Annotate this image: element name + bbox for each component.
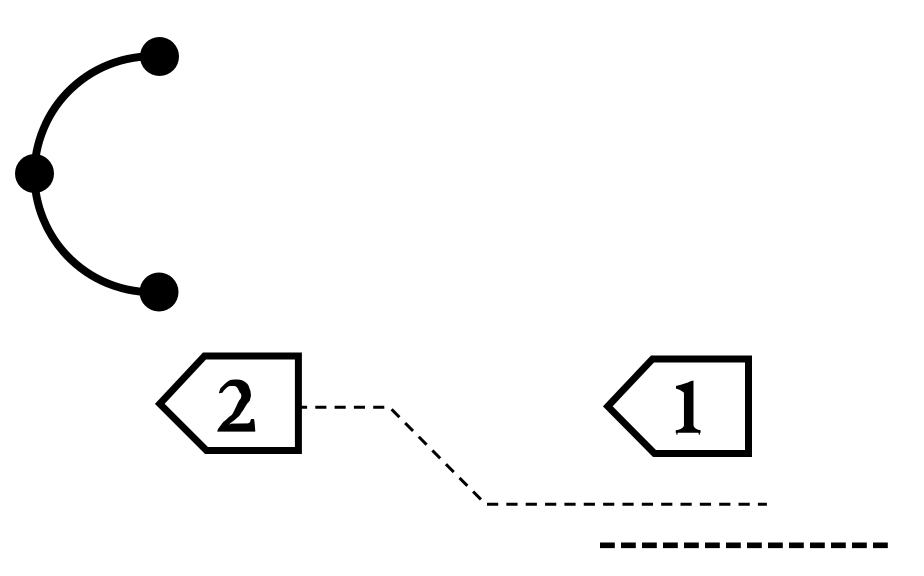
- flag 1 pentagon outline: [608, 359, 749, 454]
- wire dashed horizontal lower segment: [487, 503, 767, 506]
- arc through three nodes: [34, 56, 159, 292]
- thick dashed segment bottom right: [600, 542, 888, 548]
- node dot bottom: [140, 273, 179, 312]
- node dot top: [140, 37, 179, 76]
- flag 2 pentagon outline: [160, 356, 299, 451]
- flag label 2: [160, 356, 299, 451]
- digit 2 glyph: [217, 379, 255, 431]
- wire dashed from flag 2, horizontal then diagonal: [298, 407, 485, 504]
- digit 1 glyph: [676, 381, 701, 435]
- flag label 1: [608, 359, 749, 454]
- node dot left: [15, 154, 54, 193]
